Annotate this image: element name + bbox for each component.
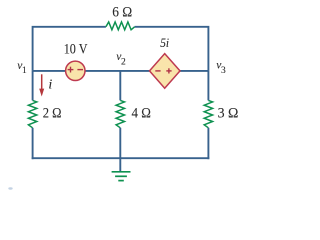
svg-text:2: 2 xyxy=(121,57,126,67)
wire top-left to top-right (top rail left segment) xyxy=(33,27,106,71)
wire middle branch: 4Ω down to bottom rail xyxy=(119,128,121,158)
wire middle rail: diamond right tip to right rail xyxy=(180,70,208,72)
wire top rail right segment xyxy=(135,27,209,71)
10V source + terminal xyxy=(68,67,74,73)
svg-text:i: i xyxy=(48,78,52,93)
svg-text:10 V: 10 V xyxy=(64,42,88,58)
wire middle branch: v2 down to 4Ω xyxy=(119,71,121,101)
wire middle rail: v1 to 10V source xyxy=(33,70,66,72)
wire middle rail: 10V source to diamond left tip (through v2) xyxy=(85,70,150,72)
svg-text:2 Ω: 2 Ω xyxy=(43,106,62,122)
ground xyxy=(112,172,131,181)
svg-text:5i: 5i xyxy=(160,35,169,50)
stray faint mark bottom-left xyxy=(8,187,12,189)
dependent source + terminal xyxy=(166,68,171,73)
wire right rail: 3Ω down to bottom rail xyxy=(207,128,209,159)
wire right rail: v3 down to 3Ω xyxy=(207,71,209,101)
resistor 3Ω (right) xyxy=(204,100,212,127)
voltage source 10V (circle) xyxy=(66,61,85,80)
svg-text:1: 1 xyxy=(22,66,27,76)
wire left rail: 2Ω down to bottom rail xyxy=(32,128,34,159)
dependent source − terminal xyxy=(155,70,160,72)
dependent source 5i (diamond) xyxy=(150,54,181,89)
wire left rail: v1 down to 2Ω xyxy=(32,71,34,101)
svg-text:4 Ω: 4 Ω xyxy=(132,106,151,122)
svg-text:6 Ω: 6 Ω xyxy=(112,5,132,21)
wire ground stem xyxy=(119,158,121,171)
10V source − terminal xyxy=(77,69,83,71)
svg-text:3: 3 xyxy=(221,66,226,76)
current arrow i (red, downward) xyxy=(41,74,43,89)
resistor 6Ω (top) xyxy=(106,22,135,30)
svg-text:3 Ω: 3 Ω xyxy=(218,106,239,122)
resistor 4Ω (middle) xyxy=(116,100,124,127)
wire bottom rail xyxy=(32,157,210,159)
resistor 2Ω (left) xyxy=(28,100,36,127)
